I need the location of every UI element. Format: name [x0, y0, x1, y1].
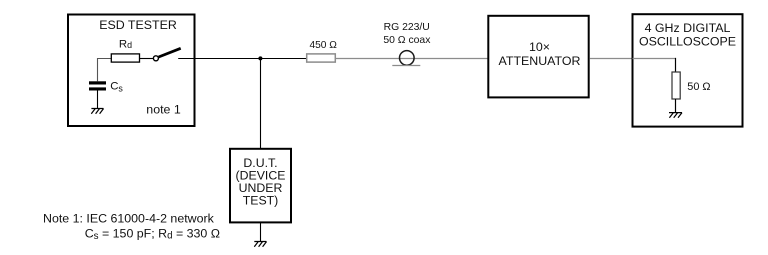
svg-text:Rd: Rd — [119, 38, 132, 50]
oscilloscope box — [633, 14, 743, 126]
wire from Rd left lead down to capacitor — [98, 59, 112, 82]
switch lever — [159, 48, 181, 57]
attenuator box — [488, 16, 588, 98]
capacitor Cs top plate — [89, 81, 106, 84]
resistor Rd — [111, 54, 139, 62]
svg-text:10×: 10× — [529, 40, 550, 54]
wire junction down to D.U.T. — [260, 58, 262, 149]
switch pole contact circle — [153, 56, 158, 61]
ESD tester box — [68, 15, 195, 127]
coax cable symbol circle — [400, 51, 415, 66]
coax wire attenuator to oscilloscope — [590, 58, 633, 60]
switch throw stub wire — [178, 58, 195, 60]
svg-text:50 Ω: 50 Ω — [687, 81, 710, 93]
svg-text:note 1: note 1 — [146, 103, 181, 117]
resistor 50 ohm — [672, 72, 680, 99]
wire Rd to switch pole — [140, 58, 154, 60]
capacitor Cs bottom plate — [89, 87, 106, 90]
svg-text:Note 1: IEC 61000-4-2 network: Note 1: IEC 61000-4-2 network — [43, 211, 215, 225]
svg-text:ESD TESTER: ESD TESTER — [99, 18, 177, 32]
wire capacitor to ground — [97, 91, 99, 109]
svg-text:TEST): TEST) — [243, 193, 279, 207]
resistor 450 ohm — [307, 54, 336, 62]
coax wire 450 ohm resistor to attenuator — [335, 58, 488, 60]
wire junction to 450 ohm resistor — [260, 58, 306, 60]
wire D.U.T. to ground — [260, 223, 262, 242]
svg-text:ATTENUATOR: ATTENUATOR — [499, 54, 581, 68]
svg-text:OSCILLOSCOPE: OSCILLOSCOPE — [639, 35, 736, 49]
wire down to 50 ohm resistor — [675, 58, 677, 73]
svg-text:50 Ω coax: 50 Ω coax — [383, 35, 431, 46]
junction node — [258, 56, 262, 60]
wire ESD tester output to junction — [195, 58, 260, 60]
svg-text:RG 223/U: RG 223/U — [384, 22, 430, 33]
coax wire into oscilloscope — [633, 58, 677, 60]
svg-text:Cs = 150 pF; Rd = 330 Ω: Cs = 150 pF; Rd = 330 Ω — [85, 227, 220, 243]
ground (D.U.T.) — [254, 242, 266, 247]
svg-text:450 Ω: 450 Ω — [309, 40, 337, 51]
ground (oscilloscope) — [669, 113, 682, 118]
D.U.T. box — [230, 149, 291, 223]
svg-text:4 GHz DIGITAL: 4 GHz DIGITAL — [645, 21, 731, 35]
wire 50 ohm resistor to ground — [675, 99, 677, 113]
ground (ESD tester) — [91, 109, 103, 114]
coax cable symbol shield line — [392, 65, 420, 67]
